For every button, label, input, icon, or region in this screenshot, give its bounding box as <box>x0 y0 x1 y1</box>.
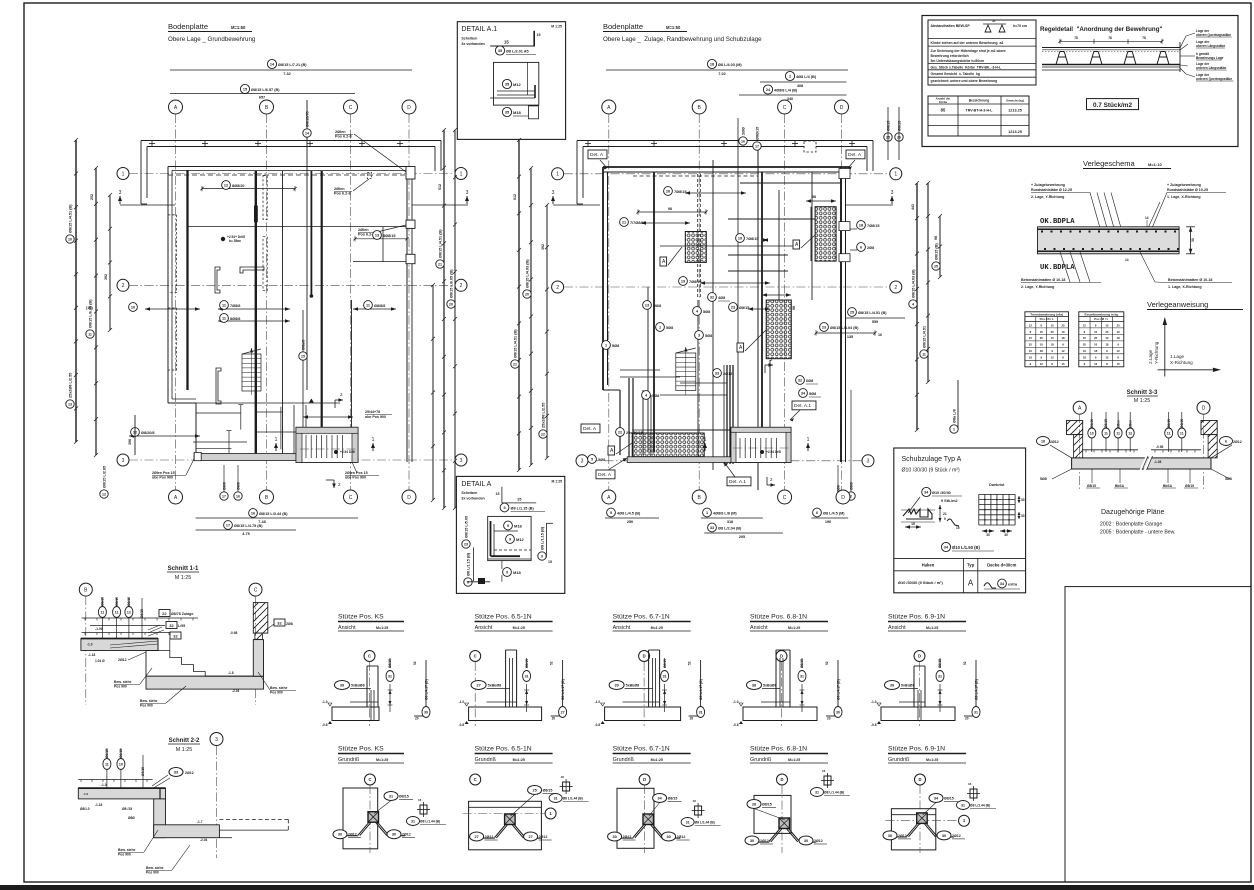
svg-text:Abstandhalten BEW-SP: Abstandhalten BEW-SP <box>931 24 971 28</box>
svg-text:C: C <box>349 495 353 501</box>
svg-text:31: 31 <box>961 804 965 808</box>
svg-text:-1.8: -1.8 <box>228 671 234 675</box>
svg-text:12: 12 <box>1083 323 1087 327</box>
svg-text:30: 30 <box>1191 238 1195 242</box>
svg-text:39: 39 <box>340 684 344 688</box>
svg-text:D: D <box>407 105 411 111</box>
svg-text:52: 52 <box>550 661 554 665</box>
svg-text:2005 : Bodenplatte - untere Be: 2005 : Bodenplatte - untere Bew. <box>1100 530 1176 536</box>
svg-text:gezeichnet: untere und obere B: gezeichnet: untere und obere Bewehrung <box>931 79 998 83</box>
svg-text:17: 17 <box>755 144 759 148</box>
svg-text:Ø8a L/8: Ø8a L/8 <box>952 409 956 423</box>
svg-text:Det. A.1: Det. A.1 <box>729 479 746 485</box>
Stuetze Pos. KS Grundriss <box>333 746 446 854</box>
svg-text:Bew. siehe: Bew. siehe <box>270 686 288 690</box>
svg-text:oberen Quertragsstäbe: oberen Quertragsstäbe <box>1196 33 1231 37</box>
svg-text:1213.25: 1213.25 <box>1008 109 1022 113</box>
svg-text:Schubzulage Typ A: Schubzulage Typ A <box>902 456 962 463</box>
svg-text:15: 15 <box>1117 362 1121 366</box>
svg-text:M18: M18 <box>513 570 522 575</box>
svg-text:15: 15 <box>1083 336 1087 340</box>
svg-text:25: 25 <box>1083 343 1087 347</box>
svg-text:Ø8 L/1.44 (B): Ø8 L/1.44 (B) <box>824 791 844 795</box>
plan 2 interior horizontals <box>620 183 841 430</box>
Schnitt 1-1 title <box>167 566 199 581</box>
svg-text:31: 31 <box>663 675 667 679</box>
svg-text:Ø8/15 L/4.51: Ø8/15 L/4.51 <box>922 326 926 348</box>
svg-text:Ø10 L/1.50 (B): Ø10 L/1.50 (B) <box>952 545 981 550</box>
svg-text:78: 78 <box>1108 36 1112 40</box>
svg-text:7Ø8/15: 7Ø8/15 <box>867 224 879 228</box>
svg-text:D: D <box>780 654 783 659</box>
svg-text:2Ø12: 2Ø12 <box>118 658 127 662</box>
svg-text:4Ø8/8 L/8 (M): 4Ø8/8 L/8 (M) <box>713 512 737 516</box>
svg-text:5m Unterstützungskörbe h=50cm: 5m Unterstützungskörbe h=50cm <box>931 59 985 63</box>
plan 1 bottom grid circles <box>169 490 417 504</box>
svg-text:-1.28: -1.28 <box>1154 460 1161 464</box>
DETAIL A box <box>456 476 564 593</box>
svg-text:20: 20 <box>525 292 529 296</box>
svg-text:31: 31 <box>554 797 558 801</box>
plan 1 grid column dash-dot lines <box>176 114 410 490</box>
svg-text:Det. A: Det. A <box>598 472 612 478</box>
svg-text:25x2Ø8 L/2.55: 25x2Ø8 L/2.55 <box>68 373 72 398</box>
svg-text:22: 22 <box>162 611 167 616</box>
svg-text:-1.08: -1.08 <box>95 627 103 631</box>
plan 1 left rotated labels <box>66 194 132 498</box>
svg-text:Stütze Pos. 6.9-1N: Stütze Pos. 6.9-1N <box>888 746 945 753</box>
svg-text:Ø8/15: Ø8/15 <box>140 609 144 618</box>
svg-text:obe Pos 900: obe Pos 900 <box>152 476 173 480</box>
svg-text:3: 3 <box>867 459 870 465</box>
Schnitt 2-2 slab shape <box>78 788 219 842</box>
bar schedule table left <box>1025 312 1124 367</box>
svg-text:20: 20 <box>449 302 453 306</box>
svg-text:18: 18 <box>1117 336 1121 340</box>
plan 1 outer walls <box>168 167 412 463</box>
svg-text:15: 15 <box>243 87 247 91</box>
svg-text:5Ø8: 5Ø8 <box>1040 477 1047 481</box>
svg-text:Ø10 /30/30 (9 Stück / m²): Ø10 /30/30 (9 Stück / m²) <box>898 580 943 585</box>
svg-text:7.02: 7.02 <box>718 72 725 76</box>
plan 2 boxed A labels <box>608 235 815 455</box>
Regeldetail title <box>1040 26 1162 33</box>
svg-text:33: 33 <box>174 770 179 775</box>
svg-text:5xBüØ8: 5xBüØ8 <box>488 684 502 688</box>
plan 2 right dimension chains <box>909 181 958 433</box>
svg-text:15: 15 <box>1029 336 1033 340</box>
svg-text:25: 25 <box>1117 323 1121 327</box>
svg-text:2: 2 <box>789 74 791 78</box>
plan 1 stair room bottom right <box>296 427 358 462</box>
Schubzulage raster grid <box>979 483 1025 537</box>
svg-text:30: 30 <box>1021 514 1025 518</box>
Schnitt 2-2 title <box>168 738 200 753</box>
svg-text:C: C <box>349 105 353 111</box>
svg-text:Ø8/8: Ø8/8 <box>236 482 240 490</box>
Regeldetail leader labels right <box>1180 29 1233 81</box>
svg-text:5Ø8: 5Ø8 <box>612 344 619 348</box>
svg-text:20: 20 <box>415 717 419 721</box>
svg-text:25: 25 <box>532 789 536 793</box>
svg-text:M=1:25: M=1:25 <box>651 626 663 630</box>
plan 2 top dimension line 2 <box>760 71 847 88</box>
svg-text:3: 3 <box>119 190 122 196</box>
svg-text:Gewicht (kg): Gewicht (kg) <box>1006 99 1024 103</box>
svg-text:8Ø8/20: 8Ø8/20 <box>232 184 244 188</box>
svg-text:2Ø12: 2Ø12 <box>760 839 769 843</box>
svg-text:2: 2 <box>894 285 897 291</box>
svg-text:M 1:25: M 1:25 <box>1134 398 1150 404</box>
svg-text:10: 10 <box>1083 349 1087 353</box>
svg-text:5Ø8: 5Ø8 <box>666 326 673 330</box>
svg-text:Ø8/15: Ø8/15 <box>115 597 119 606</box>
Stuetze Pos. KS Ansicht <box>322 614 430 728</box>
svg-text:408: 408 <box>797 84 803 88</box>
svg-text:1: 1 <box>605 343 607 347</box>
svg-text:11: 11 <box>1116 432 1120 436</box>
svg-text:TRV-BT-H-3-H-L: TRV-BT-H-3-H-L <box>966 109 994 113</box>
svg-text:6: 6 <box>860 245 862 249</box>
svg-text:18: 18 <box>1083 356 1087 360</box>
plan 1 left dimension chain lines <box>74 138 135 457</box>
Schnitt 2-2 top rebar marks <box>103 748 145 788</box>
Schnitt 2-2 tick line <box>78 780 152 788</box>
svg-text:Ø8 L/1.44 (B): Ø8 L/1.44 (B) <box>970 804 990 808</box>
svg-text:35: 35 <box>505 110 509 114</box>
svg-text:10: 10 <box>1117 330 1121 334</box>
Schnitt 3-3 grid circles <box>1073 401 1210 490</box>
svg-text:Pos 900: Pos 900 <box>146 871 159 875</box>
svg-text:Ø8/15: Ø8/15 <box>543 789 553 793</box>
svg-text:Bew. siehe: Bew. siehe <box>146 866 164 870</box>
svg-text:Ø8 L/1.15 (B): Ø8 L/1.15 (B) <box>511 507 535 511</box>
svg-text:Ø8 L/4.17 (B): Ø8 L/4.17 (B) <box>561 679 565 700</box>
svg-text:7Ø8/15: 7Ø8/15 <box>746 237 758 241</box>
UK.BDPLA label <box>1040 264 1075 272</box>
svg-text:18: 18 <box>1061 336 1065 340</box>
svg-text:30: 30 <box>836 711 840 715</box>
svg-text:20: 20 <box>827 717 831 721</box>
svg-text:X-Richtung: X-Richtung <box>1170 360 1193 365</box>
svg-text:M=1:25: M=1:25 <box>926 626 938 630</box>
svg-text:27: 27 <box>528 835 532 839</box>
svg-text:-1.7: -1.7 <box>197 820 203 824</box>
Schnitt 2-2 label 33 <box>152 768 194 790</box>
svg-text:17: 17 <box>222 494 226 498</box>
svg-text:-1.0: -1.0 <box>595 700 601 704</box>
svg-text:443: 443 <box>911 204 915 210</box>
svg-text:Ø8/15 L/4.75 (B): Ø8/15 L/4.75 (B) <box>234 524 263 528</box>
svg-text:28: 28 <box>752 803 756 807</box>
svg-text:-2.04: -2.04 <box>232 689 239 693</box>
svg-text:15: 15 <box>1061 362 1065 366</box>
svg-text:11: 11 <box>366 303 370 307</box>
plan 1 grid column circles A-D top <box>169 100 417 114</box>
svg-text:18: 18 <box>1040 349 1044 353</box>
svg-text:+2.54 DrB: +2.54 DrB <box>340 450 355 454</box>
svg-text:31: 31 <box>938 675 942 679</box>
svg-text:Ø8Ø/15: Ø8Ø/15 <box>755 127 759 140</box>
svg-text:18: 18 <box>1029 356 1033 360</box>
svg-text:12: 12 <box>1105 356 1109 360</box>
notes table <box>928 19 1036 85</box>
svg-text:2Ølen: 2Ølen <box>334 187 345 191</box>
svg-text:27: 27 <box>474 835 478 839</box>
svg-text:M12: M12 <box>513 82 522 87</box>
plan 1 title: Bodenplatte Obere Lage Grundbewehrung <box>168 22 256 43</box>
svg-text:Zur Sicherung der Höhenlage si: Zur Sicherung der Höhenlage sind je m2 o… <box>931 49 1006 53</box>
svg-text:9: 9 <box>506 570 508 574</box>
plan 1 extra lower lines <box>193 368 353 453</box>
svg-text:14: 14 <box>1145 216 1149 220</box>
Regeldetail slab section <box>1042 36 1180 72</box>
svg-text:2Ø12: 2Ø12 <box>539 835 548 839</box>
svg-text:+ Zulagebewehrung: + Zulagebewehrung <box>1167 183 1201 187</box>
svg-text:512: 512 <box>438 184 442 190</box>
svg-text:1: 1 <box>556 172 559 178</box>
svg-text:M18: M18 <box>514 524 523 529</box>
svg-text:Ges. Stück s.Tabelle Körbe T: Ges. Stück s.Tabelle Körbe TRV-BK..-3-H-… <box>931 66 1002 70</box>
svg-text:OK.BDPLA: OK.BDPLA <box>1040 218 1075 226</box>
svg-text:Schnitt 3-3: Schnitt 3-3 <box>1127 390 1158 396</box>
svg-text:8Ø8/15: 8Ø8/15 <box>383 234 395 238</box>
svg-text:15: 15 <box>1094 330 1098 334</box>
svg-text:unteren Quertragsstäbe: unteren Quertragsstäbe <box>1196 77 1232 81</box>
svg-text:D: D <box>840 105 844 111</box>
svg-text:+2.54 DrB: +2.54 DrB <box>766 450 781 454</box>
svg-text:Obere Lage _ Zulage, Randbewe: Obere Lage _ Zulage, Randbewehrung und S… <box>603 36 762 43</box>
svg-text:h=70 cm: h=70 cm <box>1013 24 1027 28</box>
svg-text:13: 13 <box>68 402 72 406</box>
svg-text:Rundstahlstäbe Ø 10-25: Rundstahlstäbe Ø 10-25 <box>1167 188 1208 192</box>
svg-text:1: 1 <box>372 437 375 443</box>
svg-text:Pos 900: Pos 900 <box>270 691 283 695</box>
plan 2 wall white column markers <box>804 141 850 262</box>
svg-text:Ø8/15: Ø8/15 <box>1087 484 1096 488</box>
plan 1 top edge beam strip <box>141 140 441 204</box>
svg-text:Ø8/15: Ø8/15 <box>1185 484 1194 488</box>
svg-text:3: 3 <box>891 190 894 196</box>
svg-text:15: 15 <box>496 492 500 496</box>
svg-text:52: 52 <box>825 661 829 665</box>
svg-text:318: 318 <box>727 520 733 524</box>
svg-text:Verlegeanweisung: Verlegeanweisung <box>1147 300 1208 309</box>
svg-text:Gesamt Gewicht s. Tabelle kg: Gesamt Gewicht s. Tabelle kg <box>931 72 981 76</box>
Schnitt 3-3 title <box>1127 390 1158 404</box>
plan 1 bottom gray wall strip <box>194 452 356 460</box>
svg-text:M=1:25: M=1:25 <box>376 626 388 630</box>
svg-text:32: 32 <box>798 378 802 382</box>
svg-text:2Ø12: 2Ø12 <box>623 835 632 839</box>
svg-text:23: 23 <box>822 325 826 329</box>
svg-text:16: 16 <box>251 511 255 515</box>
plan 2 Det.A labels top <box>588 150 865 170</box>
svg-text:Pos 6.2-8: Pos 6.2-8 <box>334 192 351 196</box>
svg-text:21: 21 <box>943 512 947 516</box>
svg-text:M=1:50: M=1:50 <box>666 25 681 30</box>
svg-text:1: 1 <box>706 511 708 515</box>
svg-text:Ansicht: Ansicht <box>888 625 906 631</box>
Verlegeschema upper annotation right <box>1167 183 1226 199</box>
svg-text:Ø8/15 L/2.05: Ø8/15 L/2.05 <box>102 466 106 488</box>
svg-text:85: 85 <box>941 108 946 113</box>
svg-text:Ø8/15: Ø8/15 <box>1167 419 1171 428</box>
svg-text:38: 38 <box>752 684 756 688</box>
svg-text:1. Lage, X-Richtung: 1. Lage, X-Richtung <box>1167 195 1201 199</box>
svg-text:16: 16 <box>878 333 882 337</box>
svg-text:obe Pos 900: obe Pos 900 <box>365 415 386 419</box>
svg-text:Grundriß: Grundriß <box>750 757 772 763</box>
svg-text:78: 78 <box>1142 36 1146 40</box>
svg-text:Pos 6.2-8: Pos 6.2-8 <box>335 135 352 139</box>
svg-text:Grundriß: Grundriß <box>613 757 635 763</box>
svg-text:14: 14 <box>305 131 309 135</box>
dimension chains left of plan 2 <box>511 138 549 472</box>
plan 2 top dimension line 18 <box>606 59 848 76</box>
svg-text:-0.8: -0.8 <box>595 723 601 727</box>
Verlegeanweisung axes arrows <box>1148 317 1221 377</box>
svg-text:26: 26 <box>666 189 670 193</box>
svg-text:Ø8/15 L/6.05 (B): Ø8/15 L/6.05 (B) <box>88 299 92 328</box>
svg-text:5Ø8: 5Ø8 <box>1225 477 1232 481</box>
svg-text:9: 9 <box>503 506 505 510</box>
plan 2 top edge beam strip <box>577 140 873 204</box>
svg-text:25: 25 <box>1094 336 1098 340</box>
svg-text:Typ: Typ <box>967 563 975 568</box>
Schnitt 3-3 corner leaders and labels <box>1037 437 1242 482</box>
svg-text:Ø8/15 L/6.57 (B): Ø8/15 L/6.57 (B) <box>251 88 280 92</box>
Schubzulage hook sketch <box>901 487 962 528</box>
svg-text:Ø8 L/1.15 (B): Ø8 L/1.15 (B) <box>540 526 544 550</box>
svg-text:30: 30 <box>942 834 946 838</box>
svg-text:Rundstahlstäbe Ø 12-25: Rundstahlstäbe Ø 12-25 <box>1031 188 1072 192</box>
svg-text:32: 32 <box>173 634 178 639</box>
svg-text:Ø8/15: Ø8/15 <box>944 797 954 801</box>
DETAIL A.1 box <box>457 22 565 140</box>
svg-text:1. Lage, X-Richtung: 1. Lage, X-Richtung <box>1168 285 1202 289</box>
svg-text:extra: extra <box>1008 583 1018 587</box>
svg-text:25: 25 <box>1029 343 1033 347</box>
svg-text:5Ø8: 5Ø8 <box>703 310 710 314</box>
svg-text:Ø8/15: Ø8/15 <box>101 597 105 606</box>
svg-text:17: 17 <box>226 523 230 527</box>
Verlegeschema upper annotation left <box>1031 183 1090 199</box>
Schnitt 1-1 labels 22 32 <box>148 610 193 637</box>
0.7 Stueck/m2 box <box>1087 99 1139 110</box>
plan 1 grid row dash-dot lines <box>129 174 455 461</box>
svg-text:15: 15 <box>504 40 509 45</box>
svg-text:Decke d=30cm: Decke d=30cm <box>987 563 1016 568</box>
svg-text:2Ø12: 2Ø12 <box>485 835 494 839</box>
svg-text:Bodenplatte: Bodenplatte <box>168 22 208 31</box>
svg-text:M 1:25: M 1:25 <box>552 479 563 483</box>
Schnitt 3-3 slab <box>1072 456 1211 470</box>
svg-text:11: 11 <box>222 316 226 320</box>
Dazugehoerige Plaene text <box>1100 509 1176 536</box>
svg-text:8Ø8/8: 8Ø8/8 <box>230 317 240 321</box>
svg-text:Grundriß: Grundriß <box>338 757 360 763</box>
plan 1 rotated bar label 14 mid <box>303 100 311 390</box>
svg-text:+ Zulagebewehrung: + Zulagebewehrung <box>1031 183 1065 187</box>
svg-text:M=1:50: M=1:50 <box>231 25 246 30</box>
plan 1 rotated labels under bottom wall <box>220 465 242 500</box>
svg-text:1: 1 <box>953 427 955 431</box>
svg-text:135: 135 <box>847 335 853 339</box>
svg-text:12: 12 <box>1061 349 1065 353</box>
svg-text:33: 33 <box>715 371 719 375</box>
svg-text:Ø8/15: Ø8/15 <box>762 803 772 807</box>
svg-text:Ø8/15: Ø8/15 <box>739 306 749 310</box>
svg-text:98: 98 <box>812 195 816 199</box>
svg-text:15: 15 <box>1040 330 1044 334</box>
svg-text:3: 3 <box>698 333 700 337</box>
svg-text:Ø8/15: Ø8/15 <box>399 795 409 799</box>
svg-text:1.Lage: 1.Lage <box>1170 354 1184 359</box>
Stuetze Pos. 6.8-1N Ansicht <box>733 614 842 728</box>
Stuetze Pos. 6.9-1N Grundriss <box>883 746 996 854</box>
svg-text:Ø8/8/8: Ø8/8/8 <box>374 304 385 308</box>
svg-text:30: 30 <box>986 533 990 537</box>
svg-text:25: 25 <box>1105 330 1109 334</box>
Schnitt 1-1 right wall hatch <box>170 603 293 640</box>
plan 2 top dimension line 24 <box>739 85 847 101</box>
svg-text:b= 55an: b= 55an <box>229 239 241 243</box>
svg-text:3: 3 <box>460 458 463 464</box>
svg-text:6: 6 <box>816 511 818 515</box>
plan 2 stairs <box>676 347 696 395</box>
Stuetze Pos. 6.5-1N Ansicht <box>459 614 567 728</box>
svg-text:Dazugehörige Pläne: Dazugehörige Pläne <box>1101 509 1165 516</box>
svg-text:2Øen: 2Øen <box>1116 420 1120 428</box>
svg-text:5: 5 <box>591 457 593 461</box>
svg-text:250: 250 <box>627 520 633 524</box>
svg-text:Stütze Pos. 6.8-1N: Stütze Pos. 6.8-1N <box>750 614 807 621</box>
svg-text:Stütze Pos. KS: Stütze Pos. KS <box>338 746 384 753</box>
svg-text:2Ø8: 2Ø8 <box>286 622 293 626</box>
svg-text:2Ølen: 2Ølen <box>358 228 369 232</box>
svg-text:Ø8/8: Ø8/8 <box>849 482 853 490</box>
svg-text:2Ø12: 2Ø12 <box>348 833 357 837</box>
svg-text:L/95: L/95 <box>178 624 185 628</box>
plan 2 grid row circles <box>552 168 902 467</box>
svg-text:10: 10 <box>1105 336 1109 340</box>
plan 2 grid column circles A-D top <box>602 100 849 114</box>
svg-text:2Ø12: 2Ø12 <box>402 833 411 837</box>
Stuetze Pos. 6.7-1N Ansicht <box>595 614 705 728</box>
svg-text:25: 25 <box>850 310 854 314</box>
Schubzulage table <box>894 558 1026 592</box>
svg-text:Bew. siehe: Bew. siehe <box>118 848 136 852</box>
svg-text:Trennbewehrung (z6a): Trennbewehrung (z6a) <box>1030 312 1063 316</box>
plan 2 schubzulage hatch rect R2 mid-left <box>685 232 706 263</box>
svg-text:13: 13 <box>645 303 649 307</box>
svg-text:M 1:25: M 1:25 <box>551 25 562 29</box>
svg-text:Obere Lage _ Grundbewehrung: Obere Lage _ Grundbewehrung <box>168 36 256 43</box>
svg-text:22: 22 <box>618 430 622 434</box>
plan 1 bottom dimension line 16 <box>196 509 358 524</box>
svg-text:3: 3 <box>581 459 584 465</box>
plan 1 top dimension line 14 <box>170 59 412 76</box>
svg-text:Ø8 L/1.44 (B): Ø8 L/1.44 (B) <box>695 821 715 825</box>
svg-text:2Ø12: 2Ø12 <box>814 839 823 843</box>
svg-text:Det. A: Det. A <box>583 426 597 432</box>
plan 1 section 3 cut arrows left-right <box>118 190 469 205</box>
svg-text:9: 9 <box>507 524 509 528</box>
svg-text:M=1:10: M=1:10 <box>1148 162 1162 167</box>
svg-text:Det. A: Det. A <box>848 152 862 158</box>
svg-text:2Ø12: 2Ø12 <box>1233 440 1242 444</box>
